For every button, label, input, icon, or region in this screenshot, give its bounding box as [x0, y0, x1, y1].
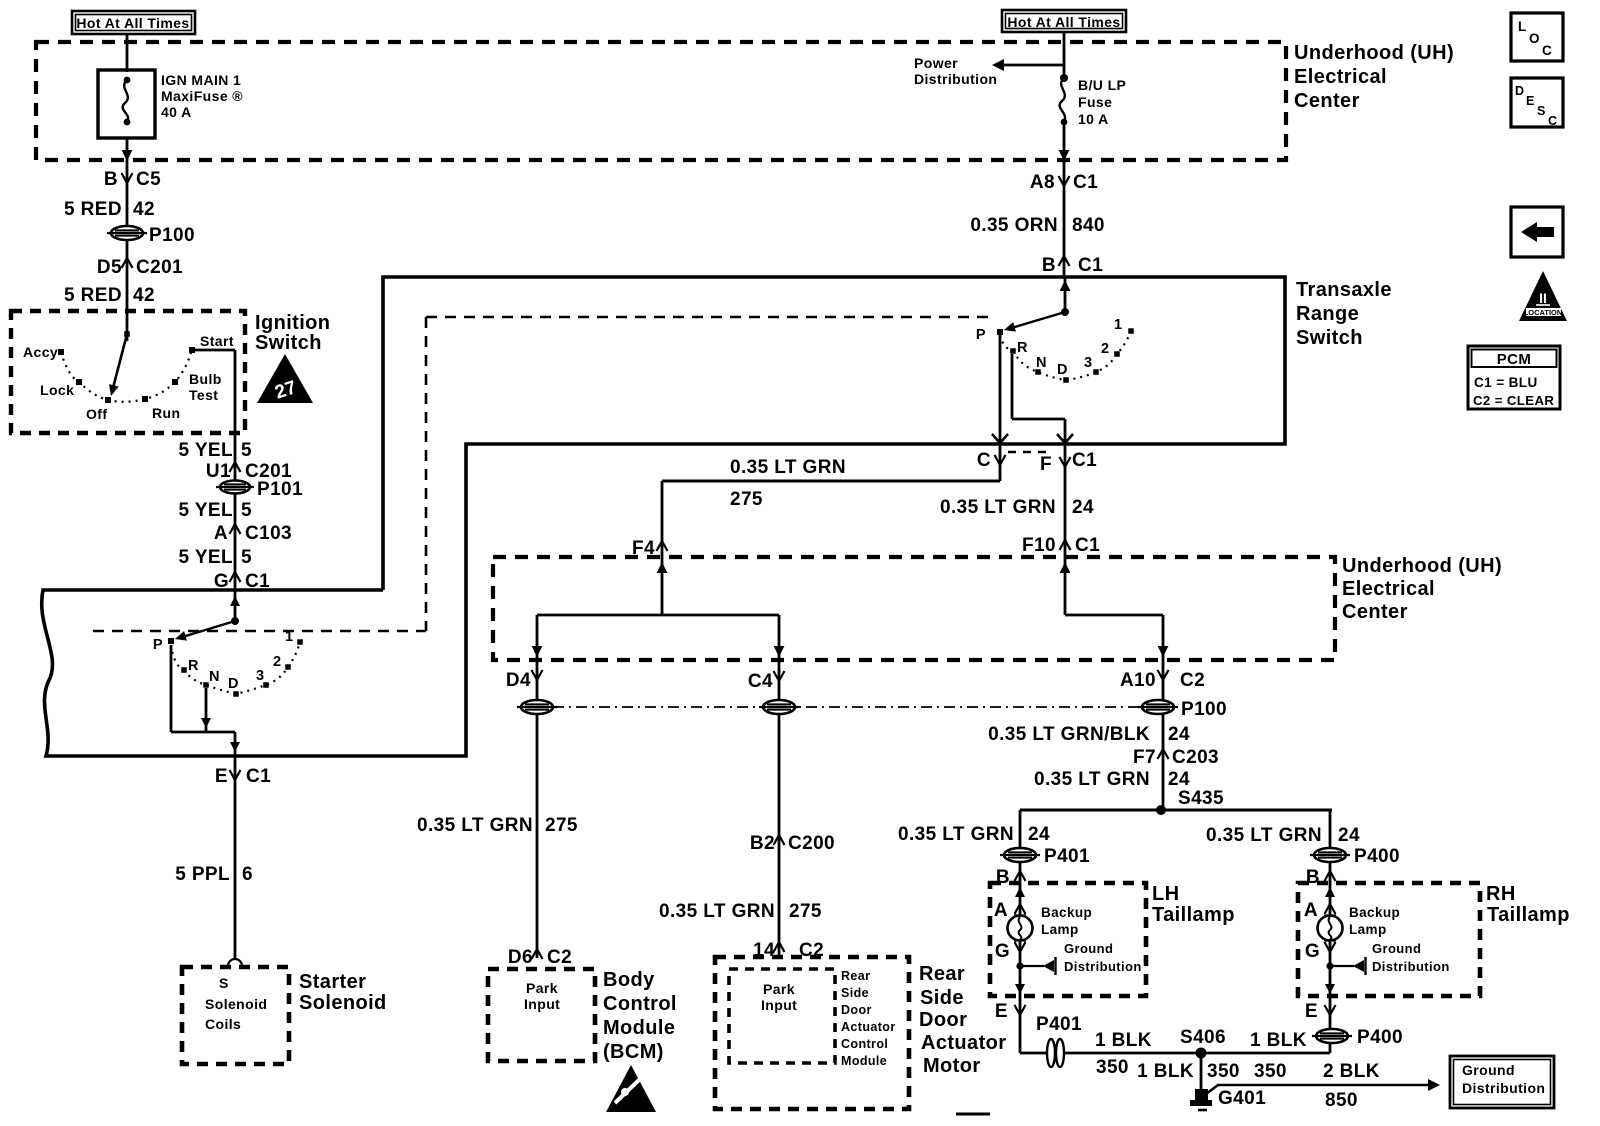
wire: B C1 entry into switch	[1060, 280, 1071, 291]
splice P100 (left)	[107, 226, 147, 240]
svg-text:Hot At All Times: Hot At All Times	[1007, 14, 1120, 30]
svg-text:Range: Range	[1296, 303, 1359, 325]
svg-text:Ground: Ground	[1372, 941, 1421, 956]
ground G401	[1190, 1089, 1212, 1110]
ignition switch wiper arm	[109, 331, 130, 396]
svg-text:275: 275	[545, 815, 578, 836]
svg-text:5: 5	[241, 547, 252, 568]
svg-text:P400: P400	[1357, 1027, 1403, 1048]
svg-text:2 BLK: 2 BLK	[1323, 1061, 1380, 1082]
svg-text:D: D	[1515, 84, 1524, 98]
svg-text:Switch: Switch	[255, 332, 322, 354]
rear side door actuator control module box (dashed)	[715, 957, 909, 1109]
svg-text:Electrical: Electrical	[1294, 66, 1387, 88]
splice P400	[1310, 848, 1350, 862]
svg-text:(BCM): (BCM)	[603, 1041, 664, 1063]
svg-text:Electrical: Electrical	[1342, 578, 1435, 600]
wire: 5 RED 42 into ignition switch	[126, 274, 129, 341]
svg-text:Distribution: Distribution	[914, 71, 997, 87]
backup lamp (RH)	[1318, 916, 1343, 941]
wire: S435 to RH taillamp	[1329, 810, 1332, 883]
svg-text:B2: B2	[750, 833, 775, 854]
svg-text:Actuator: Actuator	[921, 1032, 1006, 1054]
contact N (upper)	[1035, 369, 1041, 375]
svg-text:E: E	[995, 1001, 1008, 1022]
svg-text:C1: C1	[1072, 450, 1097, 471]
svg-text:3: 3	[256, 668, 264, 684]
wire: hot feed into fuse	[126, 34, 129, 72]
svg-text:5 RED: 5 RED	[64, 199, 122, 220]
svg-text:D: D	[228, 676, 239, 692]
wire: R branch to pin F	[1011, 354, 1014, 419]
svg-text:G: G	[1305, 941, 1320, 962]
wire: fuse to UH box edge	[126, 138, 129, 162]
svg-text:P401: P401	[1036, 1014, 1082, 1035]
pin D6 / connector C2	[508, 947, 572, 968]
pin bump at starter solenoid	[228, 959, 242, 966]
svg-text:PCM: PCM	[1497, 351, 1532, 368]
svg-text:Ignition: Ignition	[255, 312, 330, 334]
icon: DESC box	[1511, 78, 1563, 127]
wire: 0.35 LT GRN 24 (F output)	[1064, 444, 1067, 557]
svg-text:Rear: Rear	[919, 963, 965, 985]
junction dot (LH ground)	[1016, 962, 1023, 969]
svg-text:LOCATION: LOCATION	[1524, 308, 1563, 317]
svg-text:A: A	[994, 900, 1008, 921]
svg-text:5: 5	[241, 500, 252, 521]
svg-text:Park: Park	[763, 981, 795, 997]
icon: location triangle	[1519, 271, 1567, 321]
pin E / connector C1 (starter feed)	[215, 766, 271, 787]
svg-text:C: C	[977, 450, 991, 471]
svg-text:F: F	[1040, 454, 1052, 475]
svg-text:S: S	[219, 975, 229, 991]
svg-text:Lock: Lock	[40, 382, 74, 398]
svg-text:24: 24	[1168, 769, 1190, 790]
wire: C4 down	[778, 660, 781, 957]
ignition switch contact arc (dotted)	[61, 350, 192, 402]
svg-text:Accy: Accy	[23, 344, 58, 360]
svg-text:0.35 LT GRN: 0.35 LT GRN	[940, 497, 1056, 518]
contact R (lower)	[181, 667, 187, 673]
label: B2 / connector C200	[750, 833, 835, 854]
wire: P to pin C	[999, 335, 1002, 444]
wire: F4 entry arrow	[657, 562, 668, 573]
contact 1 (upper)	[1128, 328, 1134, 334]
wire: 5 RED 42 (upper)	[126, 162, 129, 226]
svg-text:Transaxle: Transaxle	[1296, 279, 1392, 301]
splice P101	[216, 481, 254, 494]
contact D (lower)	[233, 691, 239, 697]
Underhood (UH) Electrical Center box 2 (dashed)	[493, 557, 1335, 660]
contact arc (lower, dotted)	[171, 642, 300, 694]
svg-text:Start: Start	[200, 333, 234, 349]
svg-text:Input: Input	[761, 997, 797, 1013]
svg-text:5 YEL: 5 YEL	[179, 500, 233, 521]
svg-text:P401: P401	[1044, 846, 1090, 867]
svg-text:1: 1	[1114, 317, 1122, 333]
svg-text:F10: F10	[1022, 535, 1056, 556]
svg-text:Side: Side	[920, 987, 964, 1009]
svg-text:N: N	[1036, 355, 1047, 371]
svg-text:Body: Body	[603, 969, 655, 991]
pin U1 / connector C201	[206, 461, 292, 482]
mechanical link dashes between C and F	[1008, 451, 1048, 453]
svg-text:D6: D6	[508, 947, 533, 968]
switch wiper (lower)	[179, 621, 235, 638]
svg-text:S435: S435	[1178, 788, 1224, 809]
svg-text:C1: C1	[1078, 255, 1103, 276]
svg-text:840: 840	[1072, 215, 1105, 236]
label: 5 RED 42 (lower)	[64, 285, 155, 306]
svg-text:C1 = BLU: C1 = BLU	[1474, 375, 1538, 390]
contact 3 (lower)	[263, 682, 269, 688]
svg-text:Module: Module	[603, 1017, 675, 1039]
splice P100 on A10 wire	[1138, 700, 1178, 714]
svg-text:Center: Center	[1342, 601, 1408, 623]
svg-text:Door: Door	[841, 1003, 872, 1017]
svg-text:P400: P400	[1354, 846, 1400, 867]
pin G / connector C1	[214, 571, 270, 592]
PCM legend box	[1468, 346, 1560, 409]
svg-text:0.35 LT GRN: 0.35 LT GRN	[1206, 825, 1322, 846]
svg-text:L: L	[1518, 19, 1527, 34]
svg-text:C: C	[1548, 114, 1557, 128]
wire: to C4	[778, 615, 781, 660]
junction dot (RH ground)	[1326, 962, 1333, 969]
wire: hot feed right	[1063, 32, 1066, 78]
contact Off	[105, 397, 111, 403]
svg-text:5 YEL: 5 YEL	[179, 547, 233, 568]
svg-text:Hot At All Times: Hot At All Times	[76, 15, 189, 31]
contact 1 (lower)	[297, 639, 303, 645]
pin D5 / connector C201	[97, 257, 183, 278]
svg-text:Side: Side	[841, 986, 869, 1000]
svg-text:Distribution: Distribution	[1064, 959, 1142, 974]
contact 2 (upper)	[1114, 351, 1120, 357]
label: IGN MAIN 1 / MaxiFuse / 40 A	[161, 72, 243, 120]
junction dot above B/U LP fuse	[1060, 74, 1068, 82]
svg-text:Distribution: Distribution	[1462, 1080, 1545, 1096]
wire: below P100	[126, 241, 129, 274]
switch wiper (upper)	[1008, 312, 1065, 329]
RH taillamp box (dashed)	[1298, 883, 1480, 996]
svg-text:II: II	[1539, 290, 1547, 306]
wire: fuse to box edge	[1063, 122, 1066, 162]
svg-text:0.35 LT GRN: 0.35 LT GRN	[659, 901, 775, 922]
svg-text:RH: RH	[1486, 883, 1516, 905]
splice tie line (dash-dot)	[553, 706, 1142, 708]
contact arc (upper, dotted)	[1000, 331, 1131, 380]
svg-text:C: C	[1542, 43, 1552, 58]
pin A / connector C103	[214, 523, 292, 544]
wire: internal bus D4-C4	[537, 614, 779, 617]
svg-text:0.35 ORN: 0.35 ORN	[970, 215, 1058, 236]
svg-text:C103: C103	[245, 523, 292, 544]
wire: P(lower) to E pin	[170, 645, 173, 732]
svg-text:2: 2	[1101, 341, 1109, 357]
svg-text:C5: C5	[136, 169, 161, 190]
svg-text:E: E	[215, 766, 228, 787]
junction dot S435	[1156, 805, 1166, 815]
wire: S406 to G401	[1200, 1053, 1203, 1092]
wire: S435 to LH taillamp	[1019, 810, 1022, 883]
svg-text:42: 42	[133, 285, 155, 306]
wire: entry arrow (LH)	[1015, 887, 1025, 897]
wire: to Power Distribution	[1002, 64, 1064, 67]
svg-text:G401: G401	[1218, 1088, 1266, 1109]
svg-text:F7: F7	[1133, 747, 1156, 768]
svg-text:Fuse: Fuse	[1078, 94, 1112, 110]
wire: ignition switch down to transaxle body	[234, 433, 237, 590]
svg-text:5 YEL: 5 YEL	[179, 440, 233, 461]
svg-text:R: R	[1017, 340, 1028, 356]
ESD warning triangle (BCM)	[606, 1065, 656, 1112]
wire: lamp to ground junction (LH)	[1019, 940, 1022, 996]
junction: switch pivot (lower)	[231, 617, 239, 625]
pin 14 / connector C2	[753, 940, 824, 961]
contact Start	[189, 347, 195, 353]
svg-text:C203: C203	[1172, 747, 1219, 768]
wire: E C1 exit	[230, 742, 240, 752]
svg-text:0.35 LT GRN/BLK: 0.35 LT GRN/BLK	[988, 724, 1150, 745]
wire: 0.35 LT GRN 275 (C output, runs left)	[999, 444, 1002, 481]
svg-text:R: R	[188, 658, 199, 674]
node: Hot At All Times (left)	[72, 11, 195, 34]
svg-text:C200: C200	[788, 833, 835, 854]
svg-text:P100: P100	[1181, 699, 1227, 720]
svg-text:Module: Module	[841, 1054, 887, 1068]
svg-text:Switch: Switch	[1296, 327, 1363, 349]
contact 2 (lower)	[285, 664, 291, 670]
pin F7 / connector C203	[1133, 747, 1219, 768]
svg-text:0.35 LT GRN: 0.35 LT GRN	[898, 824, 1014, 845]
svg-text:Test: Test	[189, 387, 218, 403]
svg-text:Power: Power	[914, 55, 958, 71]
svg-text:1 BLK: 1 BLK	[1095, 1030, 1152, 1051]
contact P (upper)	[997, 329, 1003, 335]
svg-text:S406: S406	[1180, 1027, 1226, 1048]
svg-text:C1: C1	[246, 766, 271, 787]
wire: E to ground bus (LH)	[1019, 996, 1022, 1053]
contact N (lower)	[203, 682, 209, 688]
wire: D4 to BCM	[536, 660, 539, 958]
svg-text:Underhood (UH): Underhood (UH)	[1294, 42, 1454, 64]
svg-text:Center: Center	[1294, 90, 1360, 112]
svg-text:P: P	[976, 327, 986, 343]
wire: S406 to RH	[1201, 1052, 1330, 1055]
svg-text:6: 6	[242, 864, 253, 885]
label: 5 RED 42 (upper)	[64, 199, 155, 220]
svg-text:A: A	[214, 523, 228, 544]
svg-text:42: 42	[133, 199, 155, 220]
svg-text:C1: C1	[1073, 172, 1098, 193]
stray scan mark (bottom)	[956, 1113, 990, 1116]
splice P100 on C4 wire	[759, 700, 799, 714]
LH taillamp box (dashed)	[990, 883, 1146, 996]
svg-text:E: E	[1305, 1001, 1318, 1022]
svg-text:O: O	[1529, 31, 1540, 46]
contact P (lower)	[168, 638, 174, 644]
svg-text:D: D	[1057, 362, 1068, 378]
svg-text:5 PPL: 5 PPL	[175, 864, 230, 885]
svg-text:850: 850	[1325, 1090, 1358, 1111]
svg-text:A8: A8	[1030, 172, 1055, 193]
svg-text:Lamp: Lamp	[1041, 922, 1079, 937]
svg-text:1: 1	[285, 629, 293, 645]
svg-text:Backup: Backup	[1041, 905, 1092, 920]
svg-text:Off: Off	[86, 406, 107, 422]
contact D (upper)	[1063, 377, 1069, 383]
svg-text:Taillamp: Taillamp	[1152, 904, 1235, 926]
svg-text:Bulb: Bulb	[189, 371, 222, 387]
pin A10 / connector C2	[1120, 670, 1205, 691]
wire: 5 PPL 6	[234, 790, 237, 958]
svg-text:Actuator: Actuator	[841, 1020, 896, 1034]
svg-text:24: 24	[1338, 825, 1360, 846]
splice P401	[1000, 848, 1040, 862]
svg-text:A: A	[1304, 900, 1318, 921]
svg-text:MaxiFuse ®: MaxiFuse ®	[161, 88, 243, 104]
svg-text:2: 2	[273, 654, 281, 670]
svg-text:Solenoid: Solenoid	[299, 992, 387, 1014]
svg-text:Lamp: Lamp	[1349, 922, 1387, 937]
wire: 0.35 ORN 840	[1063, 162, 1066, 277]
wire: Start contact to ignition output	[192, 349, 235, 352]
svg-text:Control: Control	[603, 993, 677, 1015]
svg-text:Door: Door	[919, 1009, 967, 1031]
ground distribution box	[1450, 1056, 1554, 1108]
svg-text:P100: P100	[149, 225, 195, 246]
wire: to D4	[536, 615, 539, 660]
svg-text:U1: U1	[206, 461, 231, 482]
wire: S435 bus	[1020, 809, 1332, 812]
wire: N contact branch	[205, 688, 208, 732]
ground distribution reference arrow (LH)	[1020, 965, 1044, 967]
svg-text:Input: Input	[524, 996, 560, 1012]
Underhood (UH) Electrical Center box 1 (dashed)	[36, 42, 1286, 160]
svg-text:5: 5	[241, 440, 252, 461]
svg-text:C2: C2	[547, 947, 572, 968]
pin B / connector C1 (transaxle)	[1042, 255, 1103, 276]
svg-text:LH: LH	[1152, 883, 1179, 905]
svg-text:Ground: Ground	[1462, 1062, 1515, 1078]
svg-text:C2 = CLEAR: C2 = CLEAR	[1473, 393, 1554, 408]
wire: internal jog to A10	[1065, 614, 1163, 617]
mechanical link (dashed) horizontal upper	[426, 316, 988, 319]
fuse B/U LP element	[1060, 78, 1065, 121]
svg-text:B: B	[1042, 255, 1056, 276]
svg-text:Backup: Backup	[1349, 905, 1400, 920]
svg-text:Motor: Motor	[923, 1055, 981, 1077]
svg-text:D4: D4	[506, 670, 531, 691]
svg-text:Taillamp: Taillamp	[1487, 904, 1570, 926]
svg-text:Rear: Rear	[841, 969, 870, 983]
mechanical link (dashed) vertical	[425, 317, 428, 631]
svg-text:24: 24	[1028, 824, 1050, 845]
svg-text:B: B	[104, 169, 118, 190]
wire: lamp to ground junction (RH)	[1329, 940, 1332, 996]
svg-text:0.35 LT GRN: 0.35 LT GRN	[417, 815, 533, 836]
svg-text:275: 275	[789, 901, 822, 922]
svg-text:E: E	[1526, 94, 1535, 108]
pin F10 / connector C1	[1022, 535, 1100, 556]
svg-text:24: 24	[1072, 497, 1094, 518]
junction: switch pivot (upper)	[1061, 308, 1069, 316]
splice P100 on D4 wire	[517, 700, 557, 714]
fuse element IGN MAIN 1	[123, 77, 131, 126]
contact Accy	[58, 349, 64, 355]
starter solenoid box (dashed)	[182, 967, 289, 1064]
wire: G C1 into lower switch	[230, 596, 240, 606]
svg-text:10 A: 10 A	[1078, 111, 1109, 127]
svg-text:N: N	[209, 669, 220, 685]
svg-text:Underhood (UH): Underhood (UH)	[1342, 555, 1502, 577]
BCM box (dashed)	[488, 969, 595, 1061]
svg-text:IGN MAIN 1: IGN MAIN 1	[161, 72, 241, 88]
svg-text:C2: C2	[1180, 670, 1205, 691]
contact 3 (upper)	[1093, 369, 1099, 375]
node: Hot At All Times (right)	[1002, 10, 1126, 32]
svg-text:1 BLK: 1 BLK	[1137, 1061, 1194, 1082]
transaxle range switch outline (solid, with torn edge)	[42, 277, 1285, 756]
svg-text:275: 275	[730, 489, 763, 510]
svg-text:Coils: Coils	[205, 1016, 241, 1032]
svg-text:Solenoid: Solenoid	[205, 996, 267, 1012]
svg-text:1 BLK: 1 BLK	[1250, 1030, 1307, 1051]
warning triangle 27	[257, 354, 313, 404]
svg-text:350: 350	[1254, 1061, 1287, 1082]
contact Run	[142, 396, 148, 402]
pin B / connector C5	[104, 169, 161, 190]
ignition switch box (dashed)	[11, 311, 245, 433]
svg-text:40 A: 40 A	[161, 104, 192, 120]
svg-text:A10: A10	[1120, 670, 1156, 691]
svg-text:G: G	[995, 941, 1010, 962]
wire: F10 entry arrow	[1060, 562, 1071, 573]
svg-text:P101: P101	[257, 479, 303, 500]
svg-text:Park: Park	[526, 980, 558, 996]
wire: 2 BLK 850 to ground distribution	[1206, 1085, 1428, 1094]
contact R (upper)	[1010, 348, 1016, 354]
backup lamp (LH)	[1008, 916, 1033, 941]
icon: back arrow box	[1511, 207, 1563, 257]
svg-text:Starter: Starter	[299, 971, 366, 993]
svg-text:D5: D5	[97, 257, 122, 278]
wire: A10 down to S435	[1162, 660, 1165, 810]
wire: E down to ground bus (RH)	[1329, 996, 1332, 1053]
svg-text:5 RED: 5 RED	[64, 285, 122, 306]
ground distribution reference arrow (RH)	[1330, 965, 1354, 967]
svg-text:3: 3	[1084, 355, 1092, 371]
svg-text:350: 350	[1096, 1057, 1129, 1078]
svg-text:P: P	[153, 637, 163, 653]
svg-text:0.35 LT GRN: 0.35 LT GRN	[1034, 769, 1150, 790]
svg-text:Ground: Ground	[1064, 941, 1113, 956]
svg-text:C1: C1	[1075, 535, 1100, 556]
mechanical link (dashed) horizontal lower	[93, 630, 426, 633]
rear side door ACM inner box (dashed)	[729, 969, 835, 1063]
inline connector P401	[1047, 1039, 1055, 1067]
svg-text:C201: C201	[136, 257, 183, 278]
fuse IGN MAIN 1 box	[98, 70, 155, 138]
icon: LOC box	[1511, 13, 1563, 61]
pin A8 / connector C1	[1030, 172, 1098, 193]
svg-text:S: S	[1537, 104, 1546, 118]
svg-text:Distribution: Distribution	[1372, 959, 1450, 974]
svg-text:24: 24	[1168, 724, 1190, 745]
contact Bulb Test	[172, 379, 178, 385]
